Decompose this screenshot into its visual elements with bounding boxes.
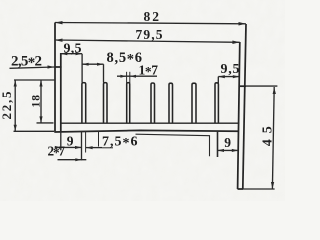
dimension 22,5 (vertical, far left) — [14, 80, 55, 131]
dimension 18 (vertical) — [37, 80, 54, 123]
fin 7 — [215, 83, 218, 123]
fin 2 — [104, 83, 108, 123]
scan noise overlay — [0, 0, 1, 1]
dimension 9,5 left — [61, 52, 82, 82]
dimension 2*7 — [58, 131, 87, 161]
dimension 7,5*6 — [86, 131, 210, 156]
heatsink base — [54, 123, 239, 132]
dimension 79,5 — [55, 39, 240, 45]
dimension 9 bottom-right — [218, 131, 239, 157]
dimension 82 — [55, 21, 246, 26]
dimension 9 bottom-left — [55, 131, 82, 160]
heatsink right wall (tall leg) — [238, 24, 247, 189]
dimension 45 (vertical, right side) — [243, 86, 277, 189]
dimension 2,5*2 (leader to left wall) — [10, 65, 55, 68]
fin 4 — [151, 83, 155, 123]
fin 5 — [169, 83, 173, 123]
fin 3 — [127, 83, 130, 123]
dimension 8,5*6 — [82, 63, 103, 83]
fin 1 — [82, 83, 86, 123]
dimension 1*7 — [117, 72, 157, 83]
fin 6 — [192, 83, 196, 123]
dimension 9,5 right — [218, 75, 239, 84]
heatsink left wall — [54, 23, 61, 132]
